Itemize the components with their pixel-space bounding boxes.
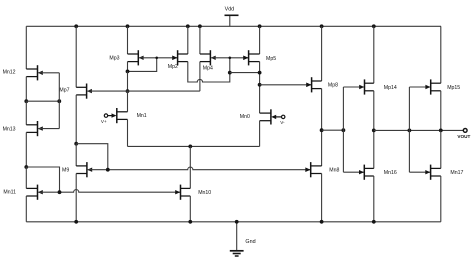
wire Mp8 drain down to Mn8 drain xyxy=(321,89,323,166)
svg-text:Mn11: Mn11 xyxy=(3,189,16,195)
wire Mp8 gate line xyxy=(260,84,312,86)
svg-text:Mp3: Mp3 xyxy=(109,55,119,61)
wire Vdd down to Mp3 source xyxy=(127,26,129,54)
svg-text:Mp2: Mp2 xyxy=(168,64,178,70)
wire Vdd junction Mp4 xyxy=(198,24,202,28)
transistor Mp4 xyxy=(200,50,216,71)
svg-text:Mp4: Mp4 xyxy=(203,66,213,72)
junction Mp3 drain / diode loop xyxy=(126,70,130,74)
junction bottom rail / Mn16 source xyxy=(372,220,376,224)
node B junction xyxy=(24,165,28,169)
wire Mn10 drain riser xyxy=(189,146,191,188)
wire gate tie horizontal xyxy=(322,129,344,131)
transistor Mp2 xyxy=(168,50,188,70)
junction bottom rail / M9 source xyxy=(74,220,78,224)
svg-text:Mn1: Mn1 xyxy=(137,113,147,119)
junction gate riser / diode tie xyxy=(228,71,232,75)
wire diode tie to Mp5 drain xyxy=(230,72,260,74)
svg-text:Mn0: Mn0 xyxy=(240,114,250,120)
wire Vdd junction Mp8 xyxy=(320,24,324,28)
svg-text:M9: M9 xyxy=(62,168,69,174)
transistor Mp7 xyxy=(59,84,92,99)
power Vdd supply symbol xyxy=(225,7,239,27)
node D junction (Mp3 drain, Mn1 drain, Mp7 gate, Mp4 drain) xyxy=(126,89,130,93)
wire left column from Vdd rail to Mn12 drain xyxy=(25,26,27,69)
terminal V- input xyxy=(276,116,282,118)
transistor Mp14 xyxy=(359,79,397,94)
wire Mp7 drain down to node C xyxy=(75,95,77,144)
junction tail / Mn10 drain xyxy=(188,145,192,149)
wire tail node Mn1-Mn0 sources xyxy=(128,145,260,147)
wire Vdd down to Mp8 source xyxy=(321,26,323,81)
junction VOUT line start xyxy=(372,129,376,133)
wire Mn13 gate to gate column xyxy=(38,128,59,130)
junction M9 gate bus / node C riser xyxy=(106,168,110,172)
transistor Mn16 xyxy=(359,165,397,180)
wire Vdd down to Mp5 source xyxy=(259,26,261,54)
svg-text:Mp5: Mp5 xyxy=(266,56,276,62)
wire Mn16 source to bottom rail xyxy=(373,176,375,222)
junction bottom rail / gnd stem xyxy=(235,220,239,224)
arrowhead Mp2 gate xyxy=(172,56,177,60)
junction Mp5 drain / diode tie xyxy=(258,71,262,75)
svg-text:Mp15: Mp15 xyxy=(447,85,460,91)
terminal V+ input xyxy=(108,115,113,117)
transistor Mn12 xyxy=(3,65,43,80)
transistor Mn1 xyxy=(112,108,147,123)
svg-text:V-: V- xyxy=(280,120,285,125)
arrowhead Mp5 gate xyxy=(243,56,248,60)
svg-text:Vdd: Vdd xyxy=(225,7,235,13)
transistor Mp15 xyxy=(425,79,460,94)
wire node C down to M9 drain xyxy=(75,144,77,166)
wire Vdd down to Mp2 source xyxy=(187,26,189,54)
wire Mn12 gate to gate column xyxy=(38,72,59,74)
wire Vdd top rail xyxy=(26,25,441,27)
wire node A horizontal tie xyxy=(26,100,59,102)
wire node A down to Mn13 drain xyxy=(25,101,27,125)
svg-text:Mn17: Mn17 xyxy=(450,170,463,176)
node A junction left xyxy=(24,99,28,103)
svg-text:Mn13: Mn13 xyxy=(3,127,16,133)
wire Mp7 gate to node D to Mp4 drain bus xyxy=(88,90,200,92)
wire Vdd down to Mp14 source xyxy=(373,26,375,83)
wire Vdd rail junction to Mp7 source xyxy=(74,24,78,28)
wire Vdd junction Mp2 xyxy=(186,24,190,28)
node C junction xyxy=(74,142,78,146)
terminal VOUT xyxy=(463,129,467,133)
wire Vdd rail right corner down to Mp15 source xyxy=(440,26,442,83)
svg-text:Mp7: Mp7 xyxy=(59,88,69,94)
transistor Mn17 xyxy=(425,165,463,180)
transistor Mn10 xyxy=(175,185,211,200)
junction Mp8-Mn8 / gate tie xyxy=(320,128,324,132)
wire Mp14 gate xyxy=(343,86,364,88)
svg-text:Mn10: Mn10 xyxy=(198,190,211,196)
wire Mp4 gate bus to Mp5 gate xyxy=(211,57,248,59)
wire Mn17 drain riser xyxy=(440,130,442,168)
svg-text:Gnd: Gnd xyxy=(245,239,255,245)
wire Mn17 source to bottom rail xyxy=(440,176,442,222)
wire Gnd bottom rail xyxy=(26,221,441,223)
junction VOUT / Mp15 drain / Mn17 drain xyxy=(439,129,443,133)
junction Mp5 drain / Mp8 gate xyxy=(258,83,262,87)
wire Vdd down to Mp7 source xyxy=(75,26,77,87)
wire Mp15 drain down to VOUT xyxy=(440,91,442,131)
transistor Mn8 xyxy=(305,162,339,177)
wire M9 source to bottom rail xyxy=(75,174,77,222)
transistor Mp8 xyxy=(306,77,338,92)
wire M9 gate bus to Mn8 gate (hop over x=190.3) xyxy=(88,167,310,170)
junction bottom rail / Mn10 source xyxy=(188,220,192,224)
transistor M9 xyxy=(62,162,92,177)
svg-text:Mn12: Mn12 xyxy=(3,70,16,76)
arrowhead Mp8 gate xyxy=(306,83,311,87)
wire Mn11 gate bus to Mn10 gate (hop over x=76.2) xyxy=(38,190,180,193)
wire gate column Mn12-Mn13 xyxy=(58,73,60,129)
transistor Mp5 xyxy=(243,50,276,65)
transistor Mp3 xyxy=(109,50,143,65)
wire node B to Mn11 gate riser xyxy=(26,167,59,192)
svg-text:Mn16: Mn16 xyxy=(384,170,397,176)
wire Mn8 source to bottom rail xyxy=(321,174,323,222)
wire Mp3 drain down to node D xyxy=(127,62,129,72)
node A junction right xyxy=(57,99,61,103)
wire VOUT bus xyxy=(374,129,464,131)
junction gate tie / Mp14-Mn16 gate column xyxy=(342,128,346,132)
junction Mp3 gate T xyxy=(155,57,158,60)
wire Mn12 source down to node A xyxy=(25,77,27,102)
wire Mp14 drain down to Mn16 drain xyxy=(373,91,375,169)
wire Mp15-Mn17 gate column xyxy=(408,87,410,172)
wire Mn1 source down to tail xyxy=(127,119,129,146)
junction Mn11 gate / riser xyxy=(58,190,62,194)
wire Mp14-Mn16 gate column xyxy=(342,87,344,172)
ground Gnd symbol xyxy=(230,222,256,256)
wire Mn16 gate xyxy=(343,171,364,173)
wire Mp3 gate bus to Mp2 gate xyxy=(139,57,178,59)
svg-text:Mn8: Mn8 xyxy=(329,168,339,174)
svg-text:V+: V+ xyxy=(101,119,107,124)
wire Vdd junction Mp14 xyxy=(372,24,376,28)
junction bottom rail / Mn8 source xyxy=(320,220,324,224)
wire node C to M9 gate line xyxy=(76,144,108,170)
svg-text:Mp8: Mp8 xyxy=(328,83,338,89)
transistor Mn0 xyxy=(240,109,276,124)
arrowhead Mn8 gate xyxy=(305,168,310,172)
svg-text:Mp14: Mp14 xyxy=(384,85,397,91)
wire Vdd down to Mp4 source xyxy=(199,26,201,54)
wire Mp3 drain to node D xyxy=(127,71,129,91)
wire Mn1 drain up to node D xyxy=(127,91,129,112)
transistor Mn13 xyxy=(3,121,43,136)
wire Mn0 source down to tail xyxy=(259,121,261,147)
wire node B down to Mn11 drain xyxy=(25,167,27,188)
transistor Mn11 xyxy=(3,185,42,200)
wire Mp15 gate xyxy=(409,86,430,88)
wire Mn10 source to bottom rail xyxy=(189,196,191,222)
wire Mp5 drain chain down to Mn0 drain xyxy=(259,62,261,114)
wire Mn17 gate xyxy=(409,171,430,173)
junction Mp4/Mp5 gate riser T xyxy=(229,57,232,60)
wire Vdd junction Mp5 xyxy=(258,24,262,28)
wire Mn13 source down to node B xyxy=(25,132,27,167)
wire Mp4 drain down to node D bus xyxy=(199,62,201,92)
wire Vdd junction Mp3 xyxy=(126,24,130,28)
junction VOUT / Mp15-Mn17 gate column xyxy=(408,129,412,133)
svg-text:VOUT: VOUT xyxy=(457,134,470,139)
wire Mp2 drain down and across to Mp4/Mp5 gate riser (hop over x=199.9) xyxy=(188,58,230,82)
wire Mn11 source to bottom rail xyxy=(25,196,27,222)
wire Mp3 diode loop gate to drain xyxy=(128,58,157,72)
